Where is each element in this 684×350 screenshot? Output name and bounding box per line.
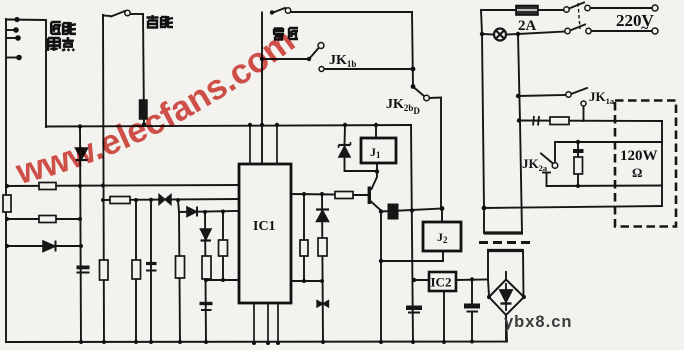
label sensor char4 xyxy=(62,37,74,50)
wire JK1b lower contact row xyxy=(324,68,413,70)
resistor R-row200 xyxy=(110,197,130,204)
resistor R-col206 xyxy=(202,256,211,279)
switch startup lever xyxy=(273,8,285,13)
resistor R-row186 xyxy=(39,183,56,190)
wire JK1a row xyxy=(518,95,566,96)
wire row y186 right xyxy=(547,185,663,188)
resistor R-col578 xyxy=(574,157,583,174)
wire IC1 pin to base resistor xyxy=(291,193,335,196)
wire row y219 xyxy=(7,218,80,220)
wire J1 bottom lead xyxy=(376,163,378,172)
transformer secondary top bar xyxy=(487,249,523,252)
wire column x223 xyxy=(222,212,224,281)
svg-text:2A: 2A xyxy=(518,18,537,34)
diode D-col322 xyxy=(316,210,329,222)
IC1 bottom pin 1 xyxy=(253,303,255,343)
resistor R-col136 xyxy=(132,260,141,279)
resistor R-emitter black xyxy=(388,204,398,219)
capacitor C-col472 electrolytic xyxy=(464,304,480,312)
wire row y212 xyxy=(178,200,239,212)
switch JK1b lever xyxy=(309,48,319,60)
transformer primary bottom bar xyxy=(484,231,523,234)
bridge bottom lead xyxy=(505,315,507,341)
wire JK2a column xyxy=(554,142,556,163)
wire snubber column x578 xyxy=(577,142,579,186)
wire bottom ground rail xyxy=(6,315,507,342)
IC1 top pin 1 xyxy=(249,125,251,164)
wire column x180 xyxy=(179,212,180,342)
wire heater row y121 xyxy=(519,120,662,123)
capacitor C-col412 electrolytic xyxy=(406,306,422,313)
transformer secondary left leg xyxy=(488,250,489,296)
wire 220V top row xyxy=(481,9,516,11)
transistor Q1 base bar xyxy=(368,187,371,205)
svg-text:~: ~ xyxy=(641,21,649,36)
wire lamp column x518 xyxy=(518,34,522,233)
terminal stub 4 xyxy=(6,57,19,59)
terminal stub 3 xyxy=(6,37,18,39)
relay J1 box xyxy=(361,138,396,163)
svg-text:Ω: Ω xyxy=(632,165,642,180)
wire top-left to sensor column xyxy=(6,20,46,128)
wire main switch pole1 right xyxy=(591,7,653,9)
switch emergency-stop lever xyxy=(111,11,125,17)
wire startup switch right to corner xyxy=(291,11,412,13)
wire main supply rail xyxy=(46,125,411,127)
switch JK1a lever xyxy=(571,88,587,94)
bridge rectifier diamond xyxy=(489,280,524,316)
svg-text:ybx8.cn: ybx8.cn xyxy=(504,313,572,331)
watermark www.elecfans.com xyxy=(20,45,298,184)
wire zener branch xyxy=(344,125,347,145)
label emergency char1 xyxy=(147,15,159,28)
svg-text:JK2a: JK2a xyxy=(522,156,548,173)
switch main pole1 lever xyxy=(569,3,584,9)
diode D-col323 small bowtie xyxy=(317,301,329,308)
wire zener bottom to J1 bottom xyxy=(345,157,378,171)
wire IC2 right lead xyxy=(456,279,488,282)
bridge inner diode xyxy=(500,283,512,311)
resistor R-col180 xyxy=(176,256,185,278)
terminal stub 1 xyxy=(6,19,17,21)
wire J1 top lead xyxy=(375,125,377,138)
wire emergency switch right xyxy=(131,13,143,15)
capacitor C-col206 xyxy=(200,304,213,311)
resistor R-col223 xyxy=(219,240,228,256)
IC1 bottom pin 3 xyxy=(277,303,279,343)
wire JK2D to J2 column xyxy=(430,98,442,209)
main switch linkage dashed xyxy=(578,3,580,29)
IC1 bottom pin 2 xyxy=(267,303,269,343)
wire base resistor to base xyxy=(353,194,368,196)
wire column x136 xyxy=(135,200,137,342)
transformer secondary right leg xyxy=(522,250,525,296)
wire row y186 xyxy=(7,185,239,186)
wire transistor collector xyxy=(372,172,378,190)
wire filter cap bottom xyxy=(471,313,473,342)
diode D-row212 xyxy=(187,207,197,217)
resistor R-col304 xyxy=(300,240,308,256)
load 120W dashed box xyxy=(615,101,676,227)
capacitor C-col151 xyxy=(146,264,157,271)
wire row y280 xyxy=(206,279,239,281)
switch emergency-stop arm xyxy=(103,15,110,18)
switch contact circles xyxy=(125,5,658,168)
wire J2 top lead xyxy=(441,209,443,223)
wire row y246 xyxy=(7,245,81,247)
wire fuse to main switch xyxy=(538,9,564,11)
resistor R-col322 xyxy=(318,238,327,256)
wire 220V branch left vertical xyxy=(481,10,484,233)
lamp indicator xyxy=(494,29,506,41)
svg-text:JK1b: JK1b xyxy=(329,53,356,69)
wire column x322 xyxy=(322,194,323,342)
junction dots group A left xyxy=(5,17,225,282)
switch JK2a lever xyxy=(541,154,553,164)
diode D-col81 xyxy=(76,148,88,160)
resistor R-left-vertical xyxy=(3,195,11,212)
transformer core dashed xyxy=(479,241,533,244)
IC1 box xyxy=(239,164,291,303)
wire column x304 xyxy=(303,194,305,281)
wire J2 bottom loop xyxy=(381,251,443,261)
zener ZD J1 xyxy=(339,142,351,157)
resistor R-black col143 xyxy=(140,100,148,119)
switch JK2a fixed contact xyxy=(543,172,550,174)
capacitor C-col578 plate xyxy=(573,149,584,153)
svg-text:JK1a: JK1a xyxy=(589,89,615,106)
switch JK2D lever xyxy=(414,88,424,97)
svg-text:IC2: IC2 xyxy=(431,275,452,290)
terminal stub 2 xyxy=(6,29,16,31)
wire column x413 upper xyxy=(412,12,413,87)
wire startup column x262 xyxy=(261,13,263,165)
wire row y200 xyxy=(103,199,239,200)
wire column x143 xyxy=(143,14,144,124)
wire lamp left xyxy=(482,33,494,36)
fuse 2A xyxy=(516,6,538,16)
relay J2 box xyxy=(423,222,461,251)
wire transistor emitter xyxy=(371,202,381,211)
wire JK1b row xyxy=(262,58,309,60)
wire column x206 xyxy=(205,212,206,342)
svg-text:IC1: IC1 xyxy=(253,219,276,234)
IC2 box xyxy=(429,272,456,291)
wire load return row y207 xyxy=(484,206,662,208)
bridge top stub xyxy=(505,272,507,280)
wire column x151 xyxy=(150,200,152,342)
wire JK2a contact stem xyxy=(546,173,548,187)
wire main switch pole2 right xyxy=(591,30,652,32)
label sensor char2 xyxy=(63,22,76,35)
junction dots group C rails xyxy=(79,32,580,345)
capacitor C-row121 xyxy=(533,116,539,126)
diode D-col206 xyxy=(201,229,212,241)
label sensor char3 xyxy=(48,38,60,51)
capacitor C-col81 electrolytic xyxy=(77,266,90,273)
junction dots group B center xyxy=(248,10,474,283)
IC1 top pin 3 xyxy=(276,125,278,164)
label start char1 xyxy=(273,28,284,40)
wire lamp right xyxy=(507,33,519,36)
diode D-row200 bowtie xyxy=(159,195,171,205)
resistor R-row121 xyxy=(550,117,569,125)
wire row y281 IC1 right xyxy=(291,280,322,282)
label sensor char1 xyxy=(51,22,61,34)
label emergency char2 xyxy=(161,16,173,28)
resistor R-col104 xyxy=(100,260,109,280)
wire column x412 xyxy=(411,125,413,342)
svg-text:220V: 220V xyxy=(616,11,655,30)
wire IC2 left lead xyxy=(414,279,429,281)
resistor R-base xyxy=(335,192,353,199)
wire emitter row xyxy=(381,209,442,212)
resistor R-row219 xyxy=(39,216,56,223)
wire row y142 xyxy=(555,141,662,143)
svg-text:120W: 120W xyxy=(620,148,658,164)
svg-text:JK2bD: JK2bD xyxy=(386,97,420,116)
wire emergency column x103 xyxy=(103,15,104,342)
wire load inner vertical xyxy=(661,121,663,206)
wire column x81 xyxy=(80,127,81,343)
wire lamp row to pole2 xyxy=(518,32,565,35)
wire IC2 bottom lead xyxy=(443,291,445,342)
wire left bus vertical xyxy=(5,19,7,342)
wire filter cap column x472 xyxy=(471,280,473,304)
wire column x381 xyxy=(380,212,382,343)
diode D-row246 xyxy=(43,241,56,252)
switch main pole2 lever xyxy=(570,25,585,31)
label start char2 xyxy=(289,28,298,39)
wire JK1a lower contact stub xyxy=(583,107,585,122)
